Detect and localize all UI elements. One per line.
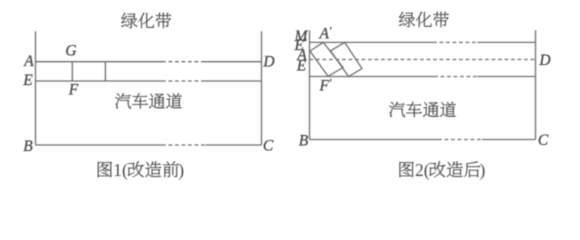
svg-text:C: C [538, 132, 549, 149]
svg-text:D: D [262, 54, 274, 71]
svg-text:): ) [480, 160, 486, 180]
left figure: line AD [36, 61, 262, 63]
caption fig2: 改造后 [430, 161, 481, 177]
svg-text:E: E [296, 58, 307, 75]
svg-text:C: C [263, 138, 274, 155]
caption fig1: 改造前 [128, 161, 179, 177]
left figure: right boundary DC vertical [261, 31, 263, 145]
right figure: line BC [310, 139, 536, 141]
caption fig1: 图 [98, 162, 112, 178]
right figure: tilted flowerbed parallelogram A'E'F'G' [310, 42, 343, 76]
left figure: car lane label 汽车通道 [115, 93, 182, 108]
svg-text:): ) [178, 160, 184, 180]
svg-text:1(: 1( [113, 160, 128, 180]
right figure: right boundary vertical [535, 30, 537, 139]
left figure: divider GF [71, 62, 73, 81]
caption fig2: 图 [400, 162, 414, 178]
right figure: line from E [310, 76, 536, 78]
left figure: left boundary AB vertical [35, 31, 37, 145]
svg-text:B: B [23, 138, 33, 155]
left figure: second divider [104, 62, 106, 81]
right figure: green belt label 绿化带 [399, 12, 449, 27]
svg-text:B: B [299, 133, 309, 150]
right figure: line through M [310, 41, 536, 43]
left figure: line from E [36, 80, 262, 82]
svg-text:F: F [68, 82, 79, 99]
svg-text:D: D [538, 52, 550, 69]
left figure: green belt label 绿化带 [121, 13, 171, 28]
svg-text:G: G [65, 43, 76, 60]
right figure: car lane label 汽车通道 [389, 102, 456, 117]
svg-text:E: E [22, 72, 33, 89]
right figure: second tilted parallelogram [331, 42, 363, 76]
left figure: line BC [36, 144, 262, 146]
right figure: dashed line AD [310, 59, 536, 61]
right figure: left boundary vertical [309, 30, 311, 139]
svg-text:A: A [23, 53, 34, 70]
svg-text:2(: 2( [415, 160, 430, 180]
